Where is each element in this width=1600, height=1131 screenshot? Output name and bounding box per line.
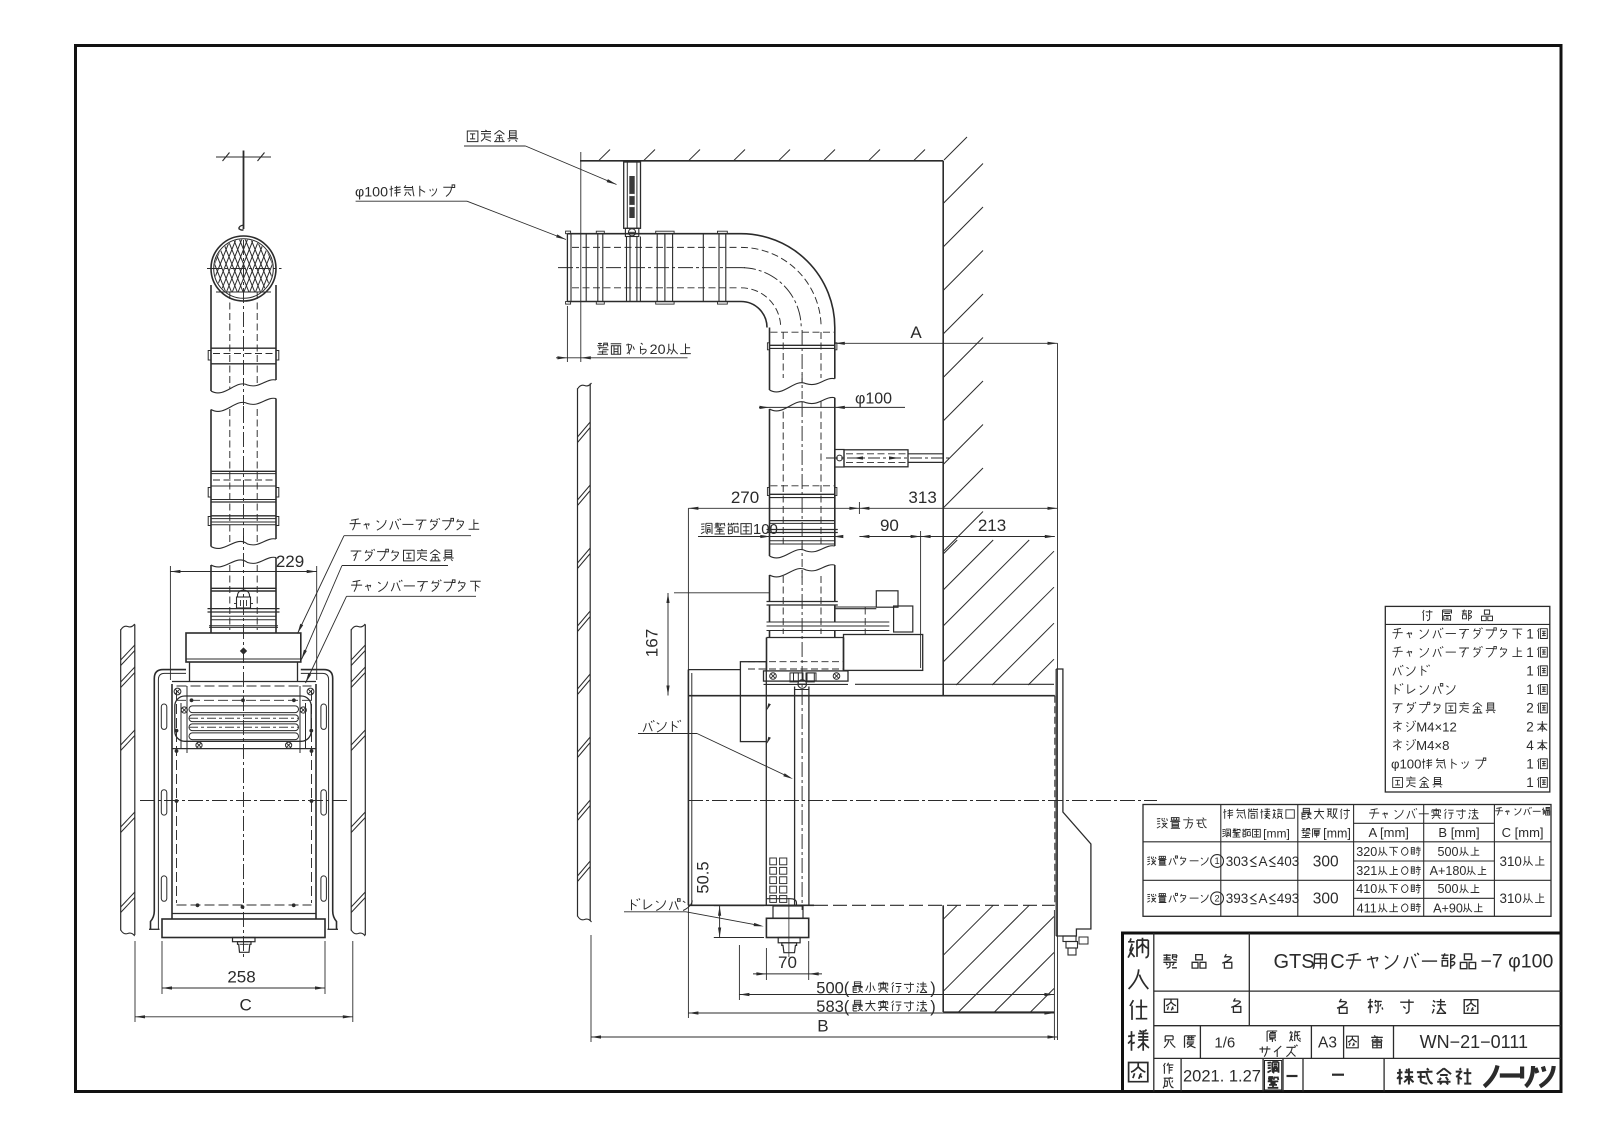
- svg-text:70: 70: [778, 953, 797, 972]
- svg-text:310: 310: [1500, 854, 1522, 869]
- svg-text:): ): [930, 979, 936, 997]
- svg-text:A3: A3: [1318, 1035, 1337, 1052]
- svg-text:WN−21−0111: WN−21−0111: [1420, 1032, 1528, 1052]
- svg-text:2: 2: [1526, 701, 1534, 716]
- svg-text:[mm]: [mm]: [1263, 827, 1290, 841]
- svg-text:A: A: [910, 323, 922, 342]
- svg-text:1: 1: [1526, 682, 1534, 697]
- svg-text:φ100: φ100: [1391, 757, 1421, 772]
- svg-text:321: 321: [1356, 864, 1377, 878]
- svg-text:403: 403: [1277, 854, 1300, 869]
- svg-text:2021. 1.27: 2021. 1.27: [1183, 1068, 1261, 1086]
- svg-text:2: 2: [1526, 719, 1534, 734]
- svg-text:411: 411: [1357, 901, 1377, 915]
- svg-text:A: A: [1258, 854, 1267, 869]
- svg-text:258: 258: [227, 968, 255, 987]
- svg-text:300: 300: [1313, 891, 1339, 908]
- svg-text:1: 1: [1526, 626, 1534, 641]
- svg-text:313: 313: [908, 488, 936, 507]
- svg-text:100: 100: [753, 521, 778, 538]
- svg-text:213: 213: [978, 516, 1006, 535]
- svg-text:C: C: [239, 996, 251, 1015]
- svg-text:90: 90: [880, 516, 899, 535]
- svg-text:B: B: [817, 1017, 828, 1036]
- svg-text:A [mm]: A [mm]: [1368, 825, 1408, 840]
- svg-text:C: C: [1330, 951, 1344, 973]
- svg-text:300: 300: [1313, 853, 1339, 870]
- svg-text:[mm]: [mm]: [1323, 827, 1351, 841]
- svg-text:φ100: φ100: [855, 391, 892, 408]
- svg-text:1/6: 1/6: [1214, 1035, 1235, 1052]
- svg-text:1: 1: [1526, 645, 1534, 660]
- svg-text:M4×12: M4×12: [1416, 719, 1457, 734]
- svg-text:310: 310: [1500, 891, 1522, 906]
- svg-text:320: 320: [1356, 845, 1377, 859]
- svg-text:1: 1: [1215, 856, 1220, 866]
- svg-text:1: 1: [1526, 757, 1534, 772]
- svg-text:1: 1: [1526, 775, 1534, 790]
- svg-text:410: 410: [1356, 882, 1377, 896]
- svg-text:4: 4: [1526, 738, 1534, 753]
- svg-text:M4×8: M4×8: [1416, 738, 1449, 753]
- svg-text:GTS: GTS: [1273, 951, 1314, 973]
- svg-text:583(: 583(: [816, 998, 850, 1016]
- svg-text:270: 270: [731, 488, 759, 507]
- svg-text:A+90: A+90: [1433, 901, 1463, 915]
- svg-text:303: 303: [1226, 854, 1249, 869]
- svg-text:500: 500: [1437, 845, 1458, 859]
- svg-text:2: 2: [1215, 893, 1220, 903]
- svg-text:500(: 500(: [816, 979, 850, 997]
- svg-text:−7 φ100: −7 φ100: [1481, 951, 1554, 973]
- svg-text:): ): [930, 998, 936, 1016]
- svg-text:A: A: [1258, 891, 1267, 906]
- svg-text:C [mm]: C [mm]: [1502, 825, 1544, 840]
- svg-text:50.5: 50.5: [695, 861, 713, 893]
- svg-text:φ100: φ100: [355, 184, 388, 200]
- svg-text:B [mm]: B [mm]: [1438, 825, 1479, 840]
- svg-text:20: 20: [650, 342, 666, 358]
- svg-text:500: 500: [1437, 882, 1458, 896]
- svg-text:393: 393: [1226, 891, 1249, 906]
- svg-text:167: 167: [643, 629, 662, 657]
- svg-text:A+180: A+180: [1430, 864, 1467, 878]
- svg-text:1: 1: [1526, 664, 1534, 679]
- svg-text:493: 493: [1277, 891, 1300, 906]
- svg-text:229: 229: [276, 552, 304, 571]
